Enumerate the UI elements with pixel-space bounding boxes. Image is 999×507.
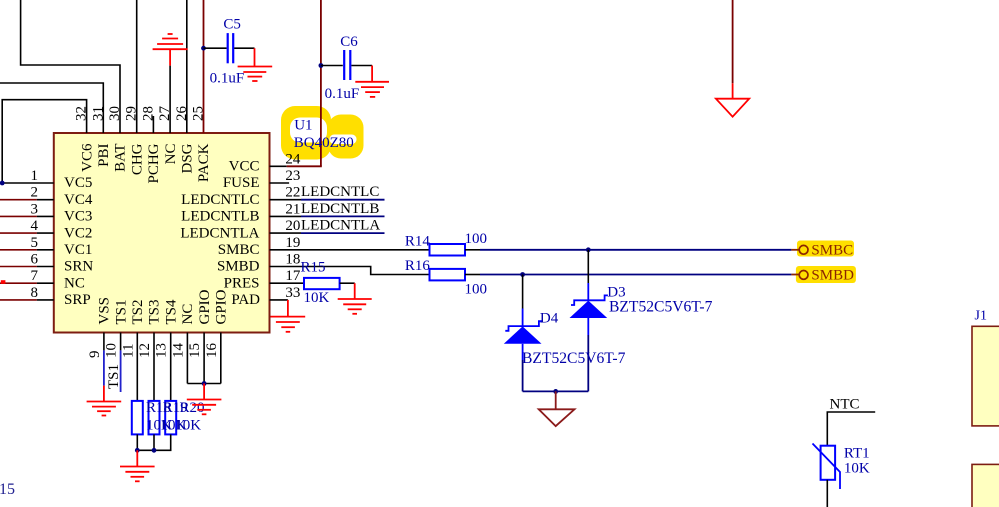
svg-text:13: 13 (154, 343, 170, 358)
pin 23 FUSE stub (270, 182, 290, 184)
svg-text:D4: D4 (540, 311, 559, 327)
svg-text:SMBD: SMBD (217, 259, 260, 275)
highlight SMBD port (796, 266, 856, 283)
wire R14 right pin (465, 249, 480, 251)
port SMBD (791, 268, 854, 284)
wire SMBD (480, 274, 791, 276)
wire R16 right pin (465, 274, 480, 276)
svg-text:PRES: PRES (224, 275, 260, 291)
svg-text:VSS: VSS (97, 297, 113, 325)
svg-text:U1: U1 (294, 118, 312, 134)
svg-text:10: 10 (104, 343, 120, 358)
svg-text:23: 23 (285, 168, 300, 184)
svg-text:9: 9 (87, 351, 103, 359)
pin 14 NC wire (186, 333, 188, 384)
svg-text:SRP: SRP (64, 292, 91, 308)
svg-text:PCHG: PCHG (146, 143, 162, 183)
wire R15 right pin (340, 282, 355, 284)
svg-text:LEDCNTLB: LEDCNTLB (301, 201, 379, 217)
svg-text:LEDCNTLA: LEDCNTLA (301, 218, 380, 234)
pin names bottom (rotated) (97, 289, 230, 324)
svg-text:VC4: VC4 (64, 192, 93, 208)
ground C5 (earth) (238, 48, 273, 81)
svg-text:LEDCNTLC: LEDCNTLC (181, 192, 259, 208)
pin numbers left (31, 168, 39, 301)
resistor R18 (132, 401, 143, 435)
pin 5 VC1 wire (0, 249, 54, 251)
svg-text:10K: 10K (304, 290, 330, 306)
svg-text:11: 11 (120, 344, 136, 358)
svg-text:21: 21 (285, 201, 300, 217)
wire D4 branch upper (522, 275, 524, 309)
svg-text:1: 1 (31, 168, 39, 184)
pin 24 VCC wire (270, 165, 322, 167)
svg-text:10K: 10K (175, 418, 201, 434)
pin 33 PAD wire (270, 299, 288, 301)
wire pin32 route (2, 100, 86, 183)
wire diode bottoms join (523, 390, 589, 392)
svg-text:16: 16 (204, 343, 220, 359)
resistor R15 (304, 278, 340, 289)
wire pin26 (186, 0, 188, 133)
svg-text:R20: R20 (180, 400, 205, 416)
pin numbers right (285, 151, 301, 301)
wire D4 lower (522, 360, 524, 391)
node SMBD/D4 (520, 272, 525, 277)
svg-text:PACK: PACK (196, 143, 212, 182)
pin 17 PRES wire (270, 282, 305, 284)
svg-text:PAD: PAD (231, 292, 260, 308)
ground VSS (earth) (87, 386, 122, 416)
svg-text:15: 15 (187, 343, 203, 358)
svg-text:SRN: SRN (64, 259, 93, 275)
diode D4 BZT52C5V6T-7 (504, 309, 542, 361)
pin names top (rotated) (79, 143, 212, 184)
erc marker pin7 (1, 280, 6, 284)
svg-text:LEDCNTLB: LEDCNTLB (181, 209, 259, 225)
svg-text:TS3: TS3 (147, 299, 163, 324)
svg-text:100: 100 (465, 281, 488, 297)
svg-text:100: 100 (465, 231, 488, 247)
svg-text:SMBD: SMBD (811, 268, 854, 284)
svg-text:31: 31 (90, 106, 106, 121)
svg-text:C6: C6 (340, 34, 358, 50)
svg-text:30: 30 (107, 106, 123, 121)
pin names left (64, 175, 93, 308)
node C5 junction (201, 46, 206, 51)
svg-text:18: 18 (285, 252, 300, 268)
pin names right (180, 159, 260, 309)
power port triangle (top right) (716, 0, 749, 117)
svg-text:3: 3 (31, 201, 39, 217)
svg-text:15: 15 (0, 481, 15, 498)
svg-text:0.1uF: 0.1uF (325, 86, 360, 102)
svg-text:17: 17 (285, 268, 301, 284)
wire pins 14-16 join (187, 383, 220, 385)
svg-text:SMBC: SMBC (811, 243, 853, 259)
resistor R20 (165, 401, 176, 435)
svg-text:2: 2 (31, 185, 39, 201)
svg-text:RT1: RT1 (844, 446, 870, 462)
svg-text:GPIO: GPIO (214, 289, 230, 324)
svg-text:CHG: CHG (129, 143, 145, 175)
pin 20 LEDCNTLA wire (270, 232, 385, 234)
svg-text:5: 5 (31, 235, 39, 251)
svg-text:TS4: TS4 (163, 299, 179, 325)
port SMBC (791, 243, 853, 259)
svg-text:NC: NC (163, 144, 179, 165)
wire R19 bottom (153, 434, 155, 450)
ground R15 (earth) (338, 283, 372, 314)
svg-text:VC1: VC1 (64, 242, 92, 258)
diode D3 BZT52C5V6T-7 (570, 283, 608, 335)
wire pin29 (136, 0, 138, 133)
svg-text:VC3: VC3 (64, 209, 92, 225)
svg-text:14: 14 (170, 343, 186, 359)
pin 10 TS1 wire (120, 333, 122, 393)
IC U1 BQ40Z80 body (54, 133, 270, 333)
wire pin25 (maroon, to top edge) (203, 0, 205, 133)
svg-text:28: 28 (140, 106, 156, 121)
svg-text:BQ40Z80: BQ40Z80 (294, 135, 354, 151)
wire pin27 lower (169, 66, 171, 133)
svg-text:C5: C5 (223, 17, 241, 33)
svg-text:R14: R14 (405, 233, 431, 249)
pin 12 wire (153, 333, 155, 401)
svg-text:24: 24 (285, 151, 301, 167)
svg-text:4: 4 (31, 218, 39, 234)
svg-text:LEDCNTLA: LEDCNTLA (180, 225, 259, 241)
pin 8 SRP wire (0, 299, 54, 301)
capacitor C5 (204, 33, 255, 63)
svg-text:LEDCNTLC: LEDCNTLC (301, 184, 379, 200)
pin 6 SRN wire (0, 266, 54, 268)
svg-text:FUSE: FUSE (223, 175, 260, 191)
svg-text:25: 25 (191, 106, 207, 121)
ground C6 (earth) (355, 66, 389, 97)
svg-text:R15: R15 (301, 259, 326, 275)
svg-text:27: 27 (157, 106, 173, 122)
resistor R14 (430, 244, 466, 256)
svg-text:NC: NC (180, 304, 196, 325)
svg-text:0.1uF: 0.1uF (210, 71, 245, 87)
svg-text:32: 32 (74, 106, 90, 121)
svg-text:BZT52C5V6T-7: BZT52C5V6T-7 (522, 350, 626, 367)
connector J1 box 1 (972, 326, 999, 426)
resistor R19 (149, 401, 160, 435)
node R19 bottom (152, 448, 157, 453)
wire VCC column (maroon, to top edge) (320, 0, 322, 166)
svg-text:BAT: BAT (113, 144, 129, 172)
wire pin1 VC5 (2, 182, 54, 184)
svg-text:12: 12 (137, 343, 153, 358)
svg-text:VC6: VC6 (79, 143, 95, 172)
svg-text:22: 22 (285, 185, 300, 201)
svg-text:NTC: NTC (830, 397, 860, 413)
pin 11 wire (136, 333, 138, 401)
svg-text:29: 29 (124, 106, 140, 121)
node C6 junction (319, 63, 324, 68)
svg-text:GPIO: GPIO (197, 289, 213, 324)
pin 16 GPIO wire (220, 333, 222, 384)
ground pin27 (inverted earth) (153, 34, 188, 66)
highlight SMBC port (797, 241, 854, 257)
svg-text:VCC: VCC (229, 159, 260, 175)
svg-text:26: 26 (174, 106, 190, 122)
pin 3 VC3 wire (0, 215, 54, 217)
svg-text:SMBC: SMBC (218, 242, 260, 258)
pin 15 GPIO wire (203, 333, 205, 384)
pin 2 VC4 wire (0, 199, 54, 201)
wire pin28 stub (152, 116, 154, 133)
svg-text:PBI: PBI (96, 143, 112, 166)
svg-text:8: 8 (31, 285, 39, 301)
svg-text:TS1: TS1 (106, 364, 122, 389)
svg-text:TS1: TS1 (113, 299, 129, 324)
resistor R16 (430, 269, 466, 281)
pin numbers top (rotated) (74, 106, 207, 122)
wire pin30 route (21, 0, 120, 133)
wire D3 branch upper (587, 250, 589, 283)
ground diodes (power gnd triangle) (539, 391, 575, 426)
wire D3 lower (587, 335, 589, 391)
svg-text:7: 7 (31, 268, 39, 284)
svg-text:33: 33 (285, 285, 300, 301)
pin 21 LEDCNTLB wire (270, 215, 385, 217)
node pins 15-16 (202, 381, 207, 386)
wire SMBC (480, 249, 791, 251)
pin 13 wire (170, 333, 172, 401)
svg-text:VC5: VC5 (64, 175, 92, 191)
pin 22 LEDCNTLC wire (270, 199, 385, 201)
node diode gnd (553, 389, 558, 394)
connector J1 box 2 (972, 464, 999, 507)
wire NTC (827, 412, 875, 446)
svg-text:TS2: TS2 (130, 299, 146, 324)
svg-text:10K: 10K (844, 460, 870, 476)
svg-text:VC2: VC2 (64, 225, 92, 241)
svg-text:6: 6 (31, 252, 39, 268)
pin 4 VC2 wire (0, 232, 54, 234)
svg-text:19: 19 (285, 235, 300, 251)
wire RT1 lower (826, 480, 828, 507)
ground GPIO (earth) (187, 384, 222, 415)
pin 18 SMBD wire (270, 267, 430, 275)
ground resistors (earth) (120, 450, 155, 481)
wire pin31 route (0, 83, 103, 133)
pin 9 VSS wire (103, 333, 105, 386)
svg-text:20: 20 (285, 218, 300, 234)
pin 19 SMBC wire (270, 249, 430, 251)
wire resistor bottoms (137, 434, 170, 450)
svg-text:DSG: DSG (180, 143, 196, 173)
highlight U1 marker (281, 106, 364, 160)
svg-text:BZT52C5V6T-7: BZT52C5V6T-7 (609, 298, 713, 315)
pin 7 NC wire (0, 282, 54, 284)
capacitor C6 (321, 50, 372, 80)
node SMBC/D3 (586, 247, 591, 252)
node R18 bottom (135, 448, 140, 453)
pin numbers bottom (rotated) (87, 343, 220, 359)
node pin1 junction (0, 181, 5, 186)
svg-text:NC: NC (64, 275, 85, 291)
svg-text:R16: R16 (405, 258, 431, 274)
svg-text:J1: J1 (975, 309, 987, 324)
thermistor RT1 (813, 444, 841, 490)
ground PAD (earth) (271, 300, 306, 332)
